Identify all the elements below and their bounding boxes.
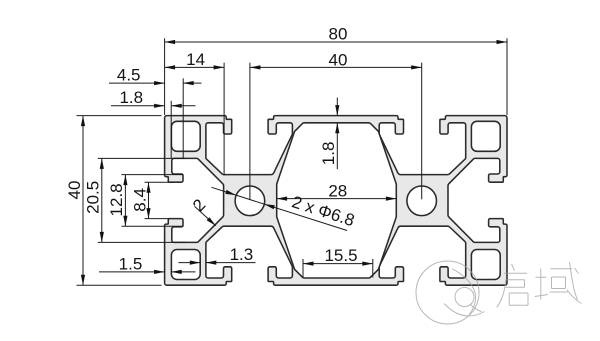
corner cavity top-right: [471, 121, 500, 151]
watermark logo circle: [416, 261, 479, 324]
svg-text:28: 28: [328, 181, 347, 200]
svg-text:14: 14: [186, 50, 205, 69]
dimension 1.8 (top face thickness): [319, 98, 339, 170]
svg-text:12.8: 12.8: [107, 183, 126, 216]
svg-text:1.5: 1.5: [119, 254, 143, 273]
svg-text:40: 40: [65, 181, 84, 200]
watermark logo bottom arc: [444, 304, 485, 317]
core hole phi 6.8 right: [407, 186, 437, 216]
central octagonal cavity: [277, 123, 397, 278]
corner cavity bottom-right: [471, 250, 500, 280]
svg-text:80: 80: [329, 24, 348, 43]
dimension 40 (overall height): [65, 116, 162, 286]
watermark logo small circle: [455, 288, 474, 307]
svg-text:15.5: 15.5: [324, 246, 357, 265]
dimension 1.3 (cavity wall): [179, 245, 256, 265]
watermark character qi: [497, 264, 528, 308]
dimension 20.5 (slot chamber width): [83, 158, 185, 242]
corner cavity top-left: [171, 121, 200, 151]
dimension 2 (web thickness): [189, 195, 216, 225]
dimension 2 x dia 6.8 (holes): [212, 187, 357, 230]
dimension 14: [165, 50, 225, 176]
dimension 1.8 (left wall thickness): [111, 88, 196, 158]
svg-text:4.5: 4.5: [117, 66, 141, 85]
dimension 4.5 (slot lip depth): [109, 66, 202, 158]
watermark logo inner arc: [452, 269, 475, 315]
dimension 40 (hole spacing): [250, 50, 422, 199]
corner cavity bottom-left: [171, 250, 200, 280]
dimension 28 (centre cavity width): [277, 181, 397, 200]
dimension 12.8: [107, 175, 183, 227]
svg-text:1.8: 1.8: [119, 88, 143, 107]
svg-text:8.4: 8.4: [131, 188, 150, 212]
profile body: 40x80 aluminium extrusion outer outline with 6 T-slots: [165, 116, 507, 286]
svg-text:1.8: 1.8: [319, 142, 338, 166]
svg-text:40: 40: [329, 50, 348, 69]
dimension 80 (overall width): [165, 24, 507, 115]
dimension 8.4 (slot opening): [131, 182, 170, 218]
dimension 15.5 (cavity flat width): [303, 246, 373, 278]
dimension 1.5 (cavity wall): [99, 254, 196, 274]
watermark logo tail swoosh: [470, 304, 482, 312]
watermark character yu: [535, 262, 582, 304]
svg-text:1.3: 1.3: [230, 245, 254, 264]
svg-text:20.5: 20.5: [83, 181, 102, 214]
core hole phi 6.8 left: [235, 186, 265, 216]
